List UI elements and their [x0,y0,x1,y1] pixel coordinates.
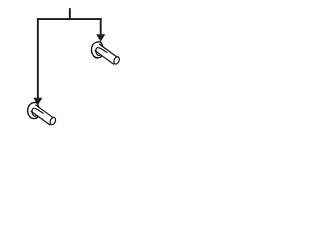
pin P2 (upper-right) [91,42,121,66]
pin P1 (lower-left) [28,102,58,126]
right arrowhead [96,34,105,42]
right vertical wire [100,18,102,34]
left vertical wire [37,18,39,98]
tick at top center [69,8,71,19]
horizontal distribution wire [37,18,102,20]
left arrowhead [33,98,42,106]
